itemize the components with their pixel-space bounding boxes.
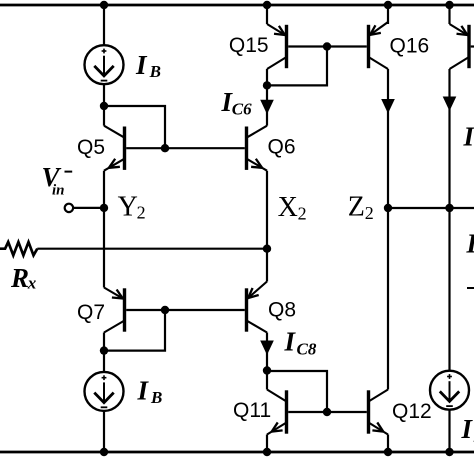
junction Q15/Q16 base (323, 42, 331, 50)
svg-text:C6: C6 (232, 100, 252, 119)
current source IB3 (bottom right) (430, 371, 469, 410)
base wire Q5-Q6 (126, 147, 245, 149)
wire Q8 collector down (266, 333, 268, 390)
wire IB3 to bottom rail (448, 410, 450, 452)
base stub of right transistor (471, 45, 474, 47)
svg-text:Q8: Q8 (268, 298, 296, 321)
node below IB1 (100, 102, 108, 110)
svg-text:2: 2 (365, 203, 374, 223)
wire IB1 to Q5 collector (103, 84, 105, 126)
svg-text:Y: Y (118, 191, 138, 222)
svg-text:Q5: Q5 (77, 136, 105, 159)
junction Q7 base loop (161, 306, 169, 314)
transistor Q8 (245, 290, 248, 330)
wire node to Q5 base loop (104, 106, 165, 148)
svg-text:in: in (52, 183, 65, 199)
base wire Q7-Q8 (126, 309, 245, 311)
svg-text:B: B (150, 388, 162, 407)
junction bottom rail / Q11 (263, 448, 271, 456)
svg-text:Q12: Q12 (392, 400, 432, 423)
transistor Q6 (245, 128, 248, 168)
transistor Q17 (right, cut off) (467, 27, 470, 67)
svg-text:R: R (10, 263, 29, 293)
base wire Q15-Q16 (288, 45, 367, 47)
junction bottom rail / IB2 (100, 448, 108, 456)
svg-text:2: 2 (137, 202, 146, 222)
transistor Q12 (367, 392, 370, 432)
wire rail to Q15 emitter (266, 5, 268, 24)
wire Q7 base loop (104, 310, 165, 351)
wire Q16 collector to Q12 (Z line) (387, 69, 389, 390)
svg-text:I: I (466, 228, 474, 258)
svg-text:Q7: Q7 (77, 301, 105, 324)
junction Z2 node (384, 204, 392, 212)
transistor Q11 (285, 392, 288, 432)
wire Q5 emitter to Y2 node (Y2 line) (103, 171, 105, 288)
minus sign (right edge, cut) (467, 287, 474, 289)
junction Q11/Q12 base (323, 408, 331, 416)
base wire Q11-Q12 (288, 411, 367, 413)
resistor Rx (0, 242, 37, 255)
svg-text:2: 2 (298, 203, 307, 223)
svg-text:Q15: Q15 (229, 34, 269, 57)
wire Q15 collector down (266, 69, 268, 126)
current arrow on right branch (443, 97, 457, 112)
input terminal Vin- (65, 204, 73, 212)
current source IB2 (bottom left) (85, 372, 124, 411)
wire IB2 to bottom rail (103, 411, 105, 452)
wire Q11 collector-base loop (267, 371, 327, 412)
wire Rx to X2 node (37, 248, 267, 250)
bottom supply rail (0, 451, 474, 454)
svg-text:I: I (284, 326, 297, 356)
wire rail to current source IB1 (103, 5, 105, 45)
svg-text:Q6: Q6 (268, 135, 296, 158)
junction bottom rail / Q12 (384, 448, 392, 456)
junction Z2 / right branch (445, 204, 453, 212)
wire Q15 collector-base loop (267, 47, 327, 86)
junction Q5 base loop (161, 144, 169, 152)
junction Q15 collector tie (263, 81, 271, 89)
wire Q11 emitter to bottom rail (266, 435, 268, 453)
junction top rail / Q15 (263, 1, 271, 9)
svg-text:Q16: Q16 (390, 34, 430, 57)
wire rail to right transistor emitter (448, 5, 450, 24)
svg-text:I: I (463, 122, 474, 152)
transistor Q5 (123, 128, 126, 168)
current arrow IC8 (260, 341, 274, 356)
junction top rail / right branch (445, 1, 453, 9)
current source IB1 (top left) (85, 45, 124, 84)
svg-text:I: I (135, 50, 148, 80)
svg-text:Z: Z (348, 192, 365, 223)
current arrow IC6 (260, 100, 274, 115)
svg-text:I: I (461, 414, 474, 444)
svg-text:I: I (137, 376, 150, 406)
transistor Q7 (123, 290, 126, 330)
junction Q11 collector tie (263, 366, 271, 374)
wire Q7 collector down (103, 333, 105, 372)
wire Q6 emitter to X2 node (266, 171, 268, 282)
junction top rail / IB1 branch (100, 1, 108, 9)
junction Q7 collector/base tie (100, 346, 108, 354)
svg-text:x: x (27, 274, 37, 293)
junction top rail / Q16 (384, 1, 392, 9)
wire Z2 node to right edge (388, 207, 474, 209)
wire rail to Q16 emitter (387, 5, 389, 24)
top supply rail (0, 4, 474, 7)
svg-text:Q11: Q11 (233, 399, 271, 422)
junction Rx / X2 line (263, 245, 271, 253)
junction Y2 input node (100, 204, 108, 212)
svg-text:X: X (278, 192, 298, 223)
junction bottom rail / right branch (445, 448, 453, 456)
svg-text:B: B (149, 62, 161, 81)
transistor Q16 (367, 27, 370, 67)
wire right transistor collector down (448, 69, 450, 371)
wire Q12 emitter to bottom rail (387, 435, 389, 453)
current arrow on Q16 collector (381, 99, 395, 114)
transistor Q15 (285, 27, 288, 67)
svg-text:C8: C8 (297, 340, 317, 359)
wire Vin- terminal to Y2 line (73, 207, 104, 209)
